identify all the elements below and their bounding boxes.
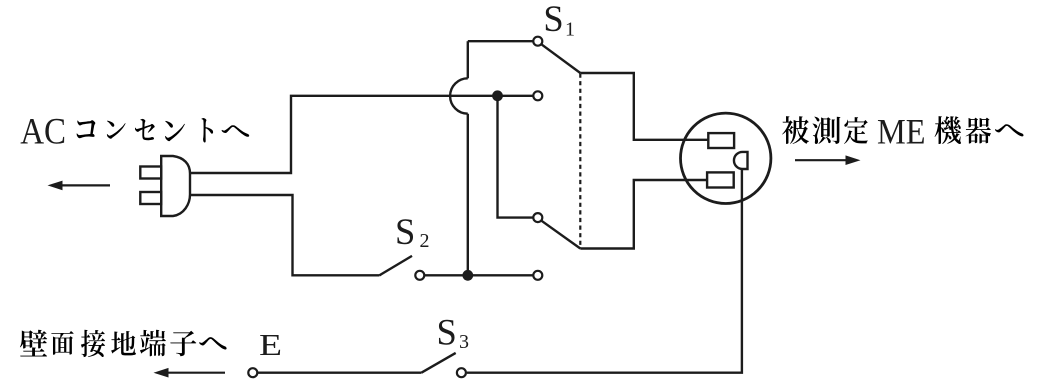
contact circle S3 right: [457, 368, 466, 377]
contact circle upper rail spare terminal: [533, 91, 542, 100]
contact circle S2: [415, 271, 424, 280]
plug prong 2: [140, 192, 161, 204]
socket J (ME equipment outlet): [681, 113, 771, 203]
wire S1 pole-1 terminal lead: [468, 40, 533, 42]
arrow to wall ground terminal: [167, 372, 225, 374]
svg-text:S: S: [395, 211, 415, 252]
switch blade S1 pole-2: [541, 221, 580, 249]
contact circle terminal E: [248, 368, 257, 377]
wire S3 to terminal E: [257, 372, 421, 374]
svg-text:2: 2: [420, 230, 430, 252]
plug P (AC mains plug): [161, 156, 190, 216]
svg-text:3: 3: [459, 331, 469, 353]
svg-text:E: E: [259, 328, 282, 362]
wire S1 pole-2 to socket neutral slot: [580, 180, 707, 249]
wire plug bottom to S2: [190, 195, 380, 275]
svg-text:S: S: [543, 0, 563, 39]
socket neutral slot: [707, 172, 734, 187]
switch blade S1 pole-1: [541, 44, 580, 73]
contact circle lower spare terminal: [533, 271, 542, 280]
label: 壁面接地端子へ: [20, 330, 47, 357]
wire S2 to lower spare terminal: [424, 274, 533, 276]
wire ground pin down to S3: [467, 169, 742, 373]
wire net a: S1 pole-1 terminal down to S2 output node: [467, 41, 469, 78]
socket live slot: [708, 133, 734, 148]
svg-text:S: S: [437, 311, 457, 352]
switch blade S3: [421, 353, 455, 373]
label: 機器へ: [935, 116, 961, 144]
label: コンセントへ: [77, 120, 96, 138]
wire S1 pole-1 to socket live slot: [580, 73, 709, 140]
wire plug top to upper rail: [190, 96, 533, 173]
dashed gang link of switch S1: [579, 74, 581, 249]
contact circle S1 pole-2 terminal: [533, 213, 542, 222]
wire net a lower segment: [467, 114, 469, 276]
node junction on upper rail: [492, 90, 503, 101]
wire net b: upper rail down to S1 pole-2 terminal: [498, 96, 534, 218]
node junction S2 output / net a: [462, 270, 473, 281]
arrow to AC outlet: [61, 184, 110, 186]
contact circle S1 pole-1 terminal: [533, 37, 542, 46]
switch blade S2: [380, 256, 413, 275]
svg-text:1: 1: [565, 18, 575, 40]
plug prong 1: [140, 167, 161, 179]
wire hop (crossover) over upper rail: [450, 78, 468, 113]
socket ground pin: [734, 152, 748, 169]
label: 被測定: [782, 116, 809, 144]
arrow to ME equipment: [795, 159, 846, 161]
svg-text:AC: AC: [20, 112, 66, 153]
svg-text:ME: ME: [877, 112, 926, 152]
